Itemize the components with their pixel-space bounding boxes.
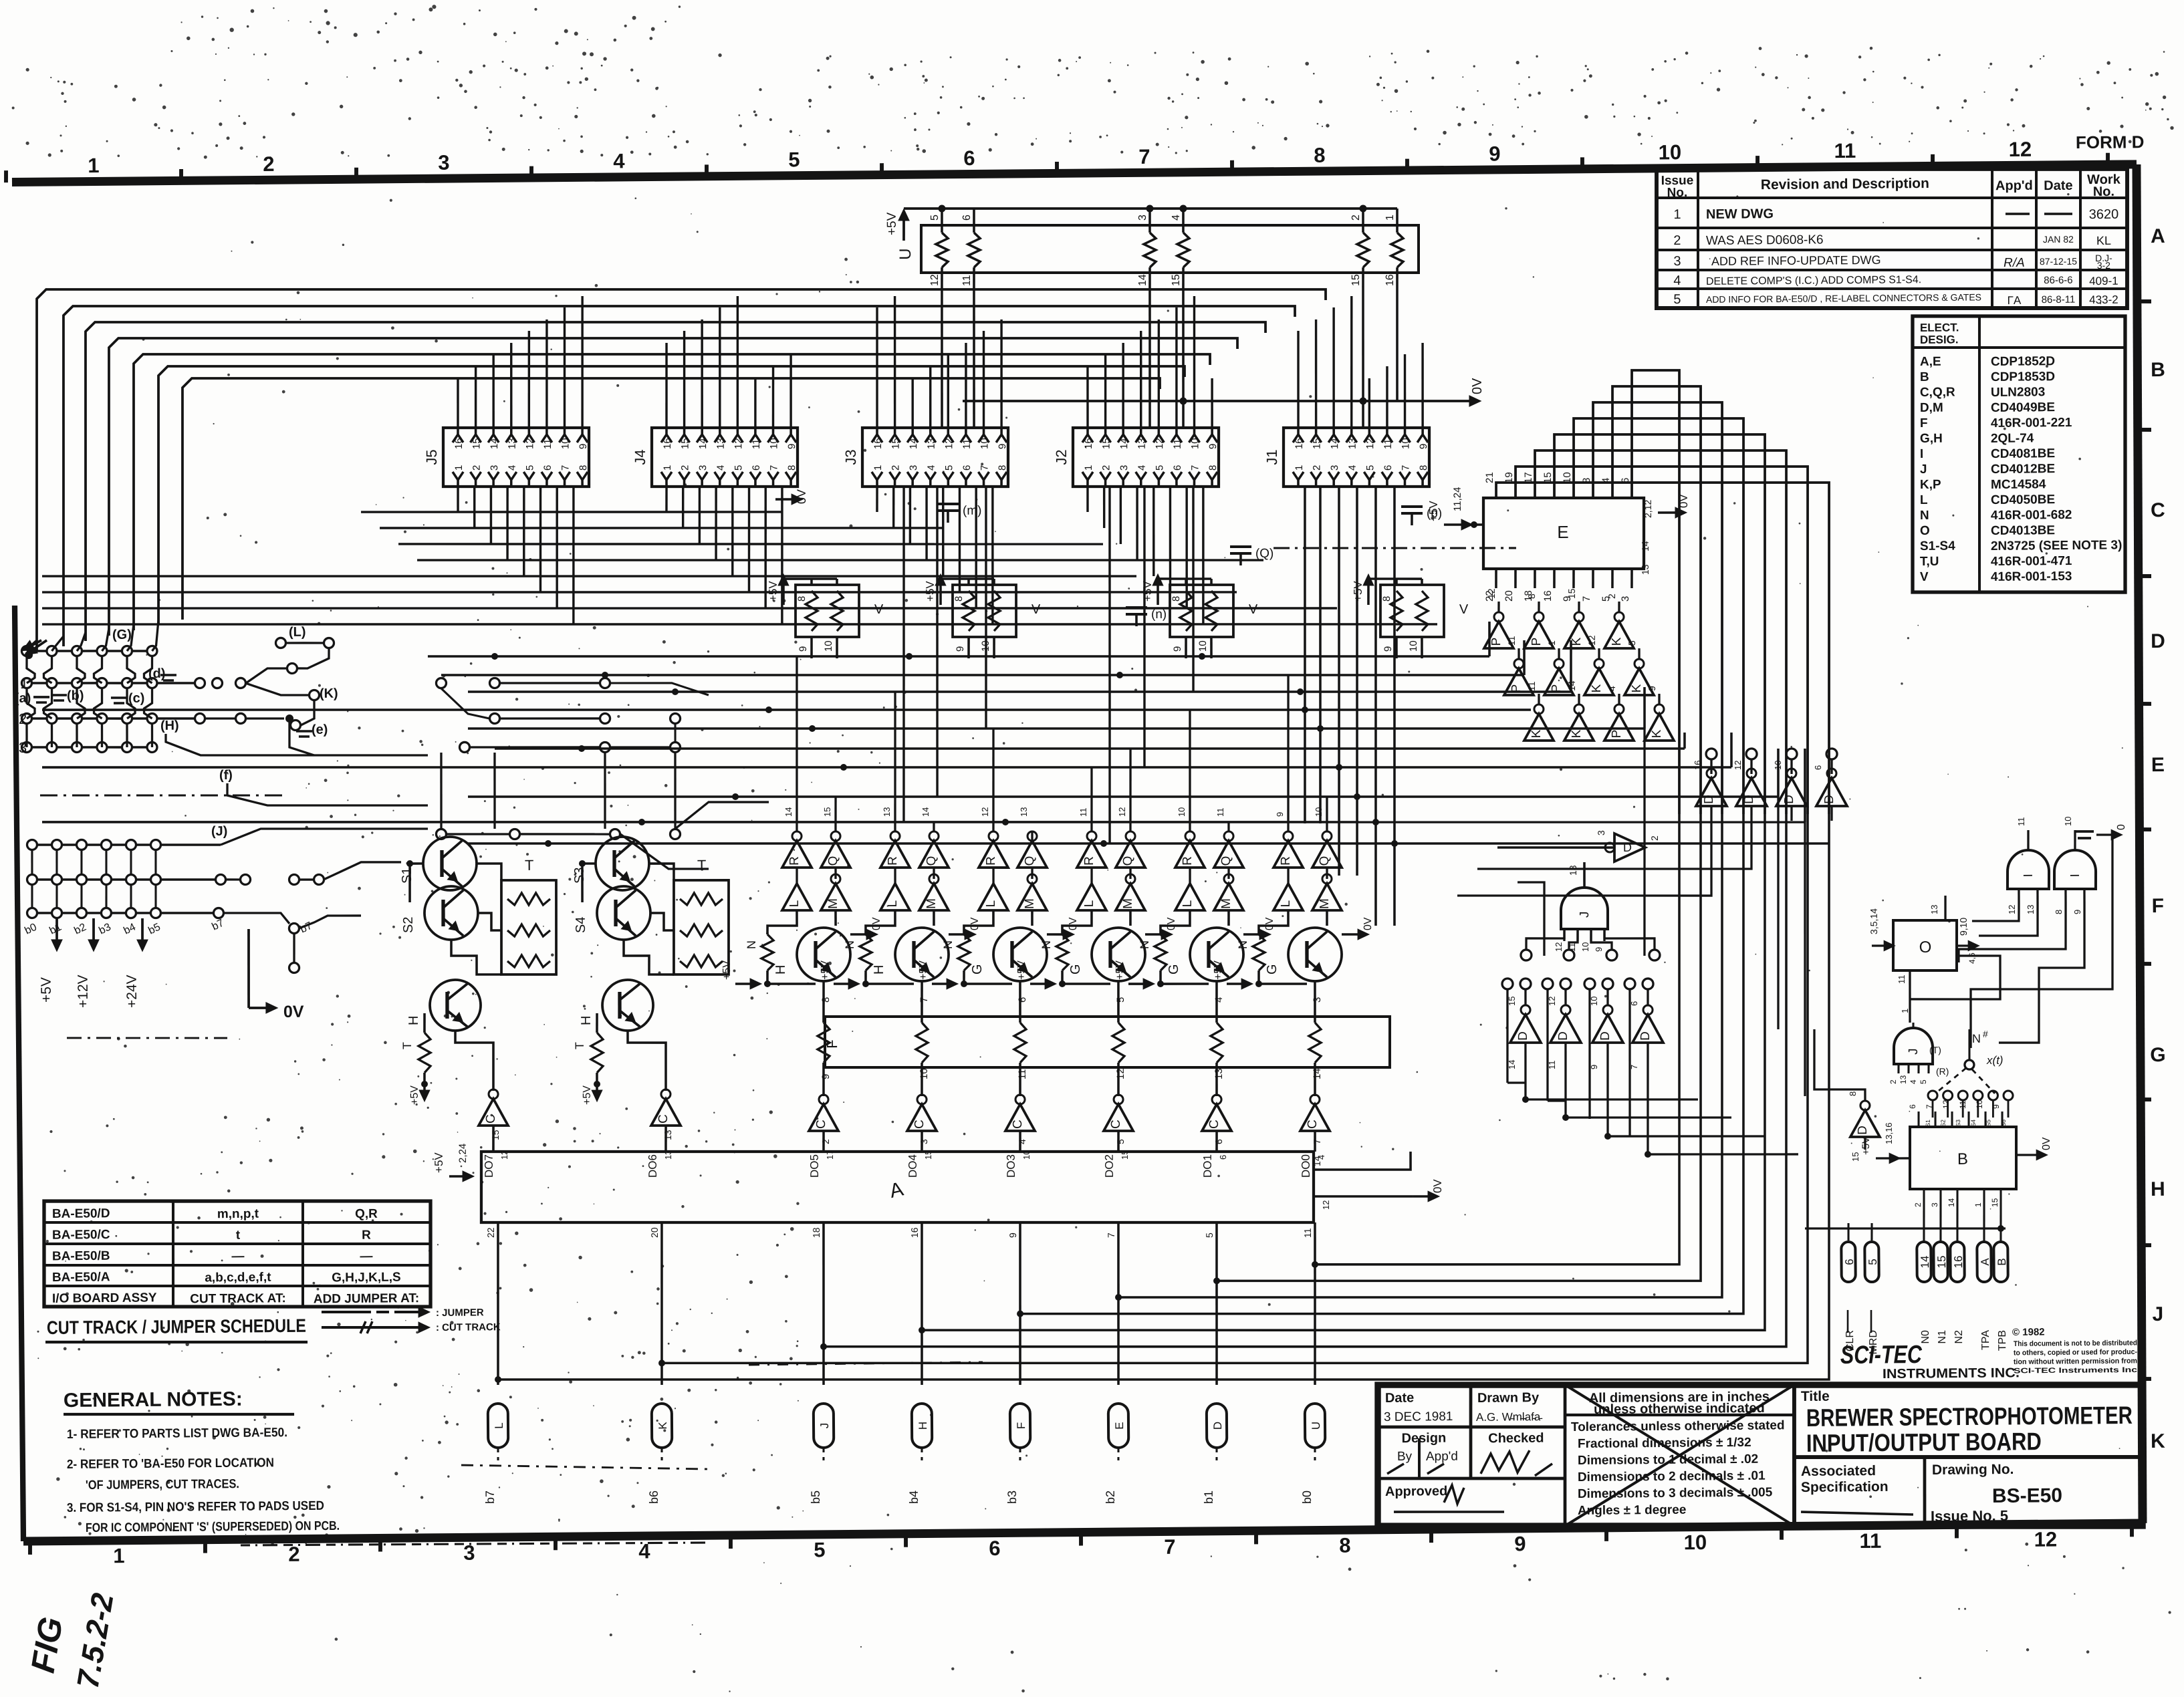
inverter R cell 1	[782, 841, 812, 868]
inverter K at 2362,1068	[1564, 714, 1594, 741]
block E bottom pins	[1495, 569, 1497, 588]
svg-text:6: 6	[1908, 1104, 1917, 1109]
svg-text:C: C	[2151, 499, 2165, 521]
wire bus line 2	[61, 296, 1298, 646]
svg-text:12: 12	[733, 438, 744, 449]
svg-text:2: 2	[1350, 215, 1362, 221]
connector J1 pin 14	[1328, 434, 1339, 442]
connector J4 pin 15	[679, 434, 689, 442]
svg-text:x(t): x(t)	[1986, 1054, 2004, 1067]
svg-text:N: N	[1920, 509, 1929, 523]
svg-text:H: H	[2151, 1178, 2165, 1200]
inverter D mid 4	[1826, 749, 1837, 759]
svg-text:C: C	[814, 1120, 828, 1129]
wire pad column 1	[27, 640, 37, 651]
svg-text:11: 11	[1859, 1529, 1881, 1553]
svg-text:KL: KL	[2096, 234, 2111, 247]
0V arrow cell 3	[1047, 933, 1072, 936]
wire riser	[1140, 331, 1142, 428]
svg-text:Drawing No.: Drawing No.	[1932, 1462, 2014, 1478]
svg-text:CD4012BE: CD4012BE	[1991, 462, 2055, 477]
svg-text:V: V	[874, 602, 884, 617]
svg-text:5: 5	[943, 465, 955, 471]
svg-text:MC14584: MC14584	[1991, 477, 2046, 492]
svg-text:11: 11	[542, 438, 554, 449]
svg-text:MRD: MRD	[1868, 1330, 1879, 1355]
wire drop J3 pin 5	[943, 487, 944, 576]
svg-text:FORM D: FORM D	[2076, 132, 2145, 152]
wire riser	[947, 354, 949, 428]
svg-text:Approved: Approved	[1385, 1484, 1448, 1499]
svg-text:8: 8	[1381, 596, 1392, 602]
svg-text:0V: 0V	[1431, 1179, 1444, 1194]
svg-text:0: 0	[2116, 824, 2127, 830]
svg-text:© 1982: © 1982	[2012, 1327, 2045, 1338]
pad circle	[21, 646, 31, 656]
svg-text:No.: No.	[1667, 186, 1688, 200]
svg-text:8: 8	[786, 465, 798, 471]
connector J2 pin 4	[1136, 472, 1146, 480]
connector J4 pin 7	[768, 472, 779, 480]
svg-text:11: 11	[1078, 807, 1088, 817]
svg-text:+5V: +5V	[433, 1152, 445, 1174]
svg-text:86-8-11: 86-8-11	[2042, 294, 2076, 305]
svg-text:D: D	[2151, 630, 2165, 652]
svg-text:R: R	[886, 856, 900, 866]
svg-text:(G): (G)	[112, 628, 132, 642]
svg-text:11: 11	[1897, 974, 1907, 984]
svg-text:L: L	[886, 900, 900, 908]
cluster circles mid	[436, 678, 446, 688]
pad circle	[147, 646, 157, 656]
inverter D mid 2	[1746, 749, 1757, 759]
svg-text:C: C	[1306, 1120, 1320, 1129]
schedule legend cut track	[322, 1327, 421, 1329]
wire bus line 3	[83, 312, 1268, 641]
inverter M cell 6	[1312, 884, 1342, 911]
svg-text:D: D	[1702, 795, 1716, 804]
wire drop J2 pin 8	[1202, 487, 1204, 624]
inverter K at 2302,1068	[1524, 714, 1554, 741]
connector J2 pin 16	[1082, 434, 1093, 442]
svg-text:6: 6	[751, 465, 762, 471]
svg-text:3: 3	[438, 151, 450, 174]
svg-text:Drawn By: Drawn By	[1477, 1390, 1540, 1406]
svg-text:G: G	[970, 964, 985, 974]
right margin ticks	[2139, 299, 2151, 303]
svg-text:14: 14	[1312, 1068, 1323, 1079]
svg-text:9: 9	[1991, 1104, 2001, 1109]
0V arrow cell 1	[850, 933, 876, 936]
wire riser	[457, 378, 458, 428]
svg-text:6: 6	[1813, 765, 1823, 770]
svg-text:: JUMPER: : JUMPER	[436, 1307, 484, 1319]
svg-text:N: N	[1236, 940, 1249, 949]
connector J3 pin 9	[996, 434, 1007, 442]
svg-text:'OF JUMPERS, CUT TRACES.: 'OF JUMPERS, CUT TRACES.	[86, 1477, 239, 1492]
wire U pin drops	[941, 287, 943, 428]
resistor U element 2	[973, 209, 975, 233]
wire channel y=1010	[441, 666, 1524, 684]
svg-text:P: P	[1610, 730, 1624, 739]
svg-text:J3: J3	[842, 449, 859, 465]
resistor F element 3	[1014, 1023, 1027, 1063]
svg-text:Q: Q	[925, 856, 939, 866]
wire R riser cell 3	[993, 729, 995, 831]
svg-text:O: O	[1919, 938, 1932, 956]
svg-text:This document is not to be dis: This document is not to be distributed	[2014, 1339, 2137, 1348]
svg-text:3: 3	[463, 1541, 475, 1565]
select pads row	[1928, 1091, 1937, 1100]
wire A drop link 7	[1311, 814, 1683, 1267]
svg-text:1: 1	[1900, 1009, 1910, 1013]
inverter D mid 3	[1786, 749, 1797, 759]
svg-text:12: 12	[1117, 807, 1127, 817]
pad circle	[72, 713, 82, 723]
svg-text:3: 3	[1620, 596, 1631, 602]
svg-text:7: 7	[1138, 145, 1150, 168]
title block	[1376, 1378, 2144, 1532]
wire riser	[773, 366, 774, 428]
wire A drop link 5	[1114, 814, 1726, 1303]
svg-text:10: 10	[768, 438, 779, 449]
svg-text:409-1: 409-1	[2089, 275, 2118, 287]
inverter K at 2362,930	[1564, 622, 1594, 649]
svg-text:10: 10	[979, 438, 990, 449]
svg-text:6: 6	[1629, 1001, 1639, 1006]
svg-text:4: 4	[1673, 273, 1681, 288]
wire drop J3 pin 2	[893, 487, 894, 528]
svg-text:11: 11	[1526, 681, 1537, 691]
connector J2 pin 12	[1153, 434, 1164, 442]
transistor cell 5	[1190, 928, 1244, 982]
svg-text:: CUT TRACK: : CUT TRACK	[436, 1321, 501, 1333]
inverter C cell left 2	[651, 1099, 681, 1126]
svg-text:20: 20	[1503, 590, 1515, 602]
svg-text:Dimensions to 1 decimal ± .02: Dimensions to 1 decimal ± .02	[1578, 1452, 1758, 1468]
connector J4 pin 1	[661, 472, 672, 480]
svg-text:App'd: App'd	[1995, 178, 2033, 193]
svg-text:416R-001-471: 416R-001-471	[1991, 554, 2072, 569]
svg-text:M: M	[1023, 898, 1037, 909]
wire cell 2 gates to base	[866, 910, 896, 934]
svg-text:14: 14	[1329, 438, 1340, 449]
svg-text:16: 16	[1384, 274, 1396, 286]
svg-text:12: 12	[1321, 1200, 1331, 1210]
svg-text:12: 12	[1364, 438, 1376, 449]
svg-text:CUT TRACK / JUMPER SCHEDULE: CUT TRACK / JUMPER SCHEDULE	[47, 1315, 306, 1338]
resistor network T cell 1	[501, 880, 557, 974]
svg-text:1: 1	[1673, 207, 1681, 222]
svg-text:12: 12	[1586, 635, 1597, 646]
svg-text:6: 6	[542, 465, 554, 471]
svg-text:3: 3	[1673, 254, 1681, 269]
svg-text:15: 15	[490, 1130, 501, 1140]
svg-text:12: 12	[2034, 1527, 2058, 1551]
wire riser	[790, 354, 792, 428]
wire channel y=1120	[495, 739, 1685, 759]
svg-text:6: 6	[1017, 997, 1028, 1003]
connector J5	[443, 426, 589, 488]
wire riser	[581, 296, 583, 428]
svg-text:7: 7	[1106, 1232, 1116, 1238]
svg-text:G: G	[2150, 1044, 2166, 1066]
transistor H cell 2	[602, 980, 654, 1031]
svg-text:A,E: A,E	[1920, 355, 1941, 369]
svg-text:K: K	[1610, 637, 1624, 646]
svg-text:N: N	[843, 940, 856, 949]
svg-text:b4: b4	[907, 1490, 921, 1504]
inverter K at 2482,1068	[1645, 714, 1674, 741]
svg-text:DO3: DO3	[1005, 1154, 1017, 1178]
svg-text:10: 10	[919, 1068, 930, 1079]
svg-text:Q: Q	[1219, 856, 1233, 866]
connector J4 pin 3	[697, 472, 707, 480]
svg-text:416R-001-221: 416R-001-221	[1991, 416, 2072, 430]
svg-text:M: M	[1121, 898, 1135, 909]
svg-text:5: 5	[814, 1538, 826, 1561]
inverter Q cell 4	[1116, 841, 1145, 868]
wire cell 5 collector drop	[1216, 981, 1217, 1023]
svg-text:11: 11	[751, 438, 762, 449]
wire S pair cell 1	[410, 864, 424, 902]
test point b4	[912, 1404, 933, 1448]
connector J3 pin 12	[943, 434, 953, 442]
svg-text:I: I	[2068, 874, 2082, 877]
svg-text:0V: 0V	[969, 917, 981, 930]
svg-text:3: 3	[489, 465, 500, 471]
connector J3 pin 10	[978, 434, 989, 442]
schedule legend jumper	[322, 1311, 371, 1312]
connector J3 pin 7	[978, 472, 989, 480]
svg-text:7: 7	[560, 465, 571, 471]
resistor N cell 5	[1155, 934, 1167, 970]
svg-text:13: 13	[662, 1130, 673, 1140]
resistor U element 5	[1362, 209, 1364, 233]
svg-text:9: 9	[1594, 947, 1604, 952]
wire channel y=982	[428, 648, 1489, 666]
svg-text:b0: b0	[1300, 1490, 1314, 1504]
svg-text:1: 1	[88, 154, 100, 177]
svg-text:86-6-6: 86-6-6	[2044, 275, 2073, 286]
connector J4 pin 13	[715, 434, 725, 442]
svg-text:16: 16	[1693, 760, 1703, 770]
test point b2	[1108, 1404, 1129, 1448]
wire drop J4 pin 5	[732, 487, 733, 576]
svg-text:C,Q,R: C,Q,R	[1920, 386, 1955, 400]
wire A drop link 6	[1213, 814, 1705, 1285]
inverter C cell 1	[809, 1104, 838, 1132]
svg-text:8: 8	[578, 465, 589, 471]
svg-text:R/A: R/A	[2004, 256, 2025, 270]
svg-text:D: D	[1211, 1422, 1224, 1430]
wire riser	[1105, 354, 1106, 428]
svg-text:b2: b2	[1104, 1490, 1117, 1504]
pad circle	[47, 646, 57, 656]
junction dots texture	[491, 653, 498, 660]
svg-text:10: 10	[2063, 817, 2073, 827]
connector J4 pin 5	[732, 472, 743, 480]
pad row y=1316	[27, 874, 37, 884]
svg-text:(n): (n)	[1151, 608, 1167, 622]
wire cell 2 collector drop	[921, 981, 922, 1023]
svg-text:N: N	[941, 940, 955, 949]
svg-text:(c): (c)	[128, 691, 145, 706]
svg-text:J: J	[1907, 1048, 1921, 1055]
svg-text:G,H: G,H	[1920, 432, 1943, 446]
inverter D3 row	[1602, 978, 1613, 989]
svg-text:1- REFER TO PARTS LIST DWG BA-: 1- REFER TO PARTS LIST DWG BA-E50.	[67, 1426, 287, 1442]
svg-text:2: 2	[1673, 233, 1681, 248]
connector J3 pin 13	[925, 434, 936, 442]
wire cell 1 collector drop	[823, 981, 824, 1023]
pad circle	[47, 742, 57, 752]
wire bus lower bends	[35, 650, 38, 653]
svg-text:3: 3	[1930, 1202, 1939, 1207]
svg-text:13: 13	[1640, 564, 1651, 575]
svg-text:Date: Date	[2044, 178, 2073, 193]
svg-text:DO2: DO2	[1103, 1154, 1116, 1178]
svg-text:5: 5	[524, 465, 535, 471]
svg-text:L: L	[1279, 900, 1293, 908]
pad circle	[97, 713, 107, 723]
svg-text:Dimensions to 2 decimals ± .0: Dimensions to 2 decimals ± .01	[1578, 1469, 1766, 1484]
svg-text:DO6: DO6	[646, 1154, 659, 1178]
svg-text:P: P	[1530, 638, 1544, 646]
svg-text:10: 10	[823, 640, 834, 652]
svg-text:4: 4	[613, 149, 625, 172]
svg-text:(Q): (Q)	[1255, 547, 1274, 561]
svg-text:2: 2	[1913, 1202, 1923, 1207]
svg-text:14: 14	[1919, 1256, 1931, 1269]
transistor cell 3	[993, 928, 1048, 982]
svg-text:11: 11	[961, 438, 973, 449]
connector J5 pin 2	[471, 472, 481, 480]
svg-text:8: 8	[1526, 594, 1537, 599]
connector J1 pin 7	[1399, 472, 1410, 480]
svg-text:2: 2	[1649, 835, 1660, 841]
resistor N cell 4	[1056, 934, 1069, 970]
test point b5	[814, 1404, 834, 1448]
svg-text:8: 8	[1171, 596, 1182, 602]
connector J1 pin 2	[1311, 472, 1322, 480]
inverter Q cell 2	[919, 841, 949, 868]
power rail +24V	[141, 918, 144, 949]
svg-text:K: K	[1570, 729, 1584, 738]
pad circle	[21, 742, 31, 752]
svg-text:S1: S1	[400, 868, 414, 884]
junction cluster f J wires	[230, 786, 428, 831]
pad circle	[147, 742, 157, 752]
svg-text:R: R	[1279, 856, 1293, 866]
svg-text:3: 3	[908, 465, 919, 471]
svg-text:12: 12	[2007, 905, 2017, 915]
svg-text:14: 14	[1507, 1060, 1517, 1070]
svg-text:K: K	[1630, 684, 1644, 692]
wire riser	[1422, 343, 1423, 428]
svg-text:Q: Q	[1318, 856, 1332, 866]
svg-text:+5V: +5V	[582, 1085, 593, 1105]
connector J1	[1283, 426, 1430, 488]
inverter M cell 2	[919, 884, 949, 911]
wire pad column 6	[152, 620, 158, 651]
svg-text:b6: b6	[647, 1490, 660, 1504]
svg-text:11: 11	[2016, 817, 2026, 826]
svg-text:BA-E50/C: BA-E50/C	[52, 1228, 110, 1243]
wire riser	[1122, 343, 1124, 428]
svg-text:9: 9	[1589, 1065, 1599, 1069]
svg-text:T,U: T,U	[1920, 555, 1939, 569]
e fan	[289, 723, 314, 756]
inverter M cell 3	[1017, 884, 1047, 910]
wire drop J4 pin 4	[715, 487, 717, 560]
svg-text:13: 13	[1929, 905, 1939, 915]
svg-text:2: 2	[471, 465, 483, 471]
connector J1 pin 4	[1346, 472, 1357, 480]
svg-text:D: D	[1856, 1126, 1870, 1135]
svg-text:3 DEC 1981: 3 DEC 1981	[1384, 1410, 1453, 1424]
svg-text:K: K	[1590, 684, 1604, 692]
svg-text:10: 10	[1021, 1150, 1032, 1160]
svg-text:7: 7	[919, 997, 930, 1003]
svg-text:4: 4	[1136, 465, 1148, 471]
revision table	[1655, 165, 2129, 312]
svg-text:10: 10	[1659, 140, 1682, 164]
svg-text:Specification: Specification	[1801, 1479, 1889, 1495]
svg-text:8: 8	[820, 997, 832, 1003]
svg-text:CD4049BE: CD4049BE	[1991, 400, 2055, 415]
connector J1 pin 5	[1364, 472, 1374, 480]
wire riser	[719, 307, 721, 428]
connector J4 pin 16	[661, 434, 672, 442]
inverter R cell 4	[1077, 841, 1106, 868]
svg-text:7: 7	[1629, 1065, 1639, 1069]
H channel wire	[166, 732, 428, 758]
svg-text:A: A	[1979, 1258, 1991, 1266]
inverter P at 2422,1068	[1604, 714, 1634, 741]
wire pad column 5	[127, 624, 134, 651]
resistor network U box	[921, 221, 1419, 277]
svg-text:5: 5	[1866, 1259, 1879, 1265]
wire cell 1 gates to base	[767, 910, 798, 934]
test point b6	[652, 1404, 673, 1448]
svg-text:2: 2	[1889, 1079, 1898, 1084]
svg-text:+5V: +5V	[820, 960, 831, 980]
svg-text:N2: N2	[1953, 1330, 1965, 1344]
resistor U element 1	[941, 209, 943, 233]
svg-text:+5V: +5V	[721, 960, 733, 980]
connector J5 pin 14	[488, 434, 499, 442]
svg-text:8: 8	[1207, 465, 1219, 471]
inverter C cell left 1	[479, 1099, 508, 1126]
svg-text:A.G. W̵m̵l̵af̵a̵: A.G. W̵m̵l̵af̵a̵	[1476, 1410, 1543, 1424]
svg-text:Checked: Checked	[1488, 1431, 1544, 1446]
connector J1 pin 16	[1293, 434, 1304, 442]
svg-text:2,12: 2,12	[1643, 499, 1653, 518]
svg-text:3,5,14: 3,5,14	[1868, 908, 1879, 934]
dashed trace hint	[40, 793, 287, 797]
connector J3 pin 6	[961, 472, 971, 480]
svg-text:TPA: TPA	[1980, 1330, 1991, 1350]
capacitor symbols	[937, 503, 959, 506]
svg-text:11: 11	[1172, 438, 1183, 449]
0V arrow cell 5	[1243, 933, 1269, 936]
svg-text:to others, copied or used for: to others, copied or used for produc-	[2014, 1348, 2137, 1357]
svg-text:TPB: TPB	[1997, 1330, 2008, 1351]
wire Q riser cell 1	[834, 797, 837, 831]
svg-text:+5V: +5V	[1016, 960, 1027, 980]
svg-text:15: 15	[1566, 588, 1577, 599]
